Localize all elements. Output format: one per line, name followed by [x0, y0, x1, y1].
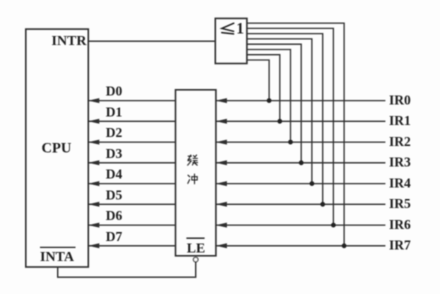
label 缓 (buffer char 1) [188, 155, 198, 165]
wire IR0 [216, 98, 386, 103]
wire D6 [88, 223, 175, 228]
wire gate pin 3 to IR5 tap [247, 34, 323, 205]
wire D0 [88, 98, 175, 103]
wire D1 [88, 119, 175, 124]
svg-text:D7: D7 [106, 229, 123, 244]
svg-text:INTA: INTA [40, 250, 75, 265]
svg-text:IR7: IR7 [389, 238, 411, 253]
svg-text:IR6: IR6 [389, 217, 411, 232]
svg-text:D2: D2 [106, 125, 123, 140]
interrupt request lines IR0..IR7 with arrows into buffer [216, 98, 386, 248]
svg-text:IR2: IR2 [389, 134, 411, 149]
junction dot on IR4 [310, 181, 315, 186]
svg-text:IR0: IR0 [389, 92, 411, 107]
junction dot on IR0 [267, 98, 272, 103]
svg-text:D5: D5 [106, 187, 123, 202]
wire gate pin 6 to IR2 tap [247, 50, 291, 143]
inverter bubble on LE pin [193, 257, 198, 262]
svg-text:D3: D3 [106, 146, 123, 161]
svg-text:D4: D4 [106, 167, 123, 182]
pin label INTA (active low) [40, 247, 76, 265]
junction dot on IR3 [299, 160, 304, 165]
wire IR4 [216, 181, 386, 186]
wire IR2 [216, 140, 386, 145]
data bus D0..D7 wires with arrows into CPU [88, 98, 175, 248]
wire D7 [88, 243, 175, 248]
wire IR3 [216, 160, 386, 165]
junction dot on IR5 [320, 202, 325, 207]
svg-text:LE: LE [187, 240, 205, 255]
svg-text:CPU: CPU [42, 140, 72, 156]
wire IR7 [216, 243, 386, 248]
svg-text:D1: D1 [106, 104, 123, 119]
wire gate pin 2 to IR6 tap [247, 28, 334, 225]
CPU U1 box [26, 29, 89, 267]
wire IR1 [216, 119, 386, 124]
svg-text:1: 1 [236, 20, 244, 37]
svg-text:IR3: IR3 [389, 155, 411, 170]
wire D2 [88, 140, 175, 145]
wire gate pin 5 to IR3 tap [247, 44, 301, 163]
svg-text:D6: D6 [106, 208, 123, 223]
wire D5 [88, 202, 175, 207]
wire INTR to gate [88, 40, 215, 42]
wire D4 [88, 181, 175, 186]
wire IR5 [216, 202, 386, 207]
svg-text:INTR: INTR [52, 34, 88, 49]
junction dot on IR6 [331, 223, 336, 228]
wire gate pin 4 to IR4 tap [247, 39, 312, 184]
OR gate U3 box [215, 18, 247, 63]
gate label &le;1 [222, 20, 244, 37]
gate input taps: horizontal from gate, vertical down to IR line, junction dot [247, 23, 344, 246]
wire gate pin 7 to IR1 tap [247, 55, 280, 122]
svg-text:IR5: IR5 [389, 196, 411, 211]
wire gate pin 8 to IR0 tap [247, 60, 269, 101]
label 冲 (buffer char 2) [188, 174, 197, 184]
buffer U2 box [176, 90, 216, 256]
wire D3 [88, 160, 175, 165]
svg-text:D0: D0 [106, 84, 123, 99]
pin label LE (active low) [186, 238, 205, 255]
wire IR6 [216, 223, 386, 228]
junction dot on IR2 [288, 140, 293, 145]
svg-text:IR4: IR4 [389, 175, 411, 190]
svg-text:IR1: IR1 [389, 113, 411, 128]
wire INTA to LE bubble [58, 262, 196, 277]
junction dot on IR7 [342, 243, 347, 248]
junction dot on IR1 [277, 119, 282, 124]
wire gate pin 1 to IR7 tap [247, 23, 344, 246]
